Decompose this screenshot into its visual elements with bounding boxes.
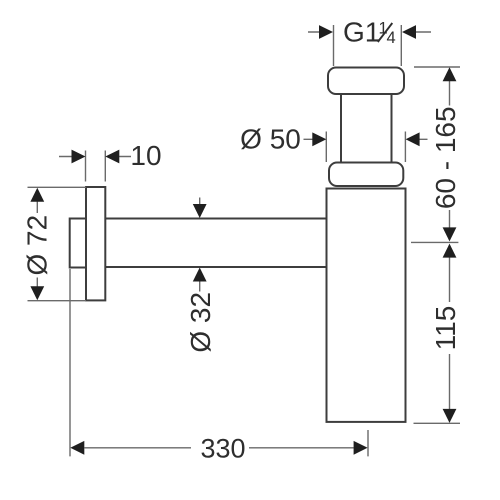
- svg-text:60 - 165: 60 - 165: [430, 106, 461, 209]
- dimension diameter 72: [22, 187, 86, 300]
- dimension 60 - 165: [411, 67, 461, 242]
- top nut: [328, 68, 404, 95]
- svg-text:Ø 72: Ø 72: [22, 215, 53, 276]
- svg-text:Ø 50: Ø 50: [240, 124, 301, 155]
- inlet pipe: [341, 94, 392, 163]
- lower nut: [329, 163, 403, 187]
- svg-text:10: 10: [130, 140, 161, 171]
- dimension G1 1/4: [308, 17, 431, 67]
- svg-text:330: 330: [200, 434, 245, 464]
- dimension 10: [59, 140, 162, 182]
- trap body: [327, 189, 406, 422]
- wall flange: [86, 187, 105, 300]
- svg-text:G1: G1: [343, 17, 380, 48]
- svg-text:4: 4: [387, 29, 396, 47]
- dimension diameter 50: [240, 124, 427, 163]
- wall pipe stub: [70, 219, 86, 268]
- outlet pipe: [105, 219, 326, 268]
- dimension diameter 32: [185, 198, 216, 353]
- dimension 330: [70, 269, 368, 464]
- svg-text:115: 115: [430, 306, 461, 351]
- dimension 115: [414, 244, 461, 424]
- svg-text:Ø 32: Ø 32: [185, 292, 216, 353]
